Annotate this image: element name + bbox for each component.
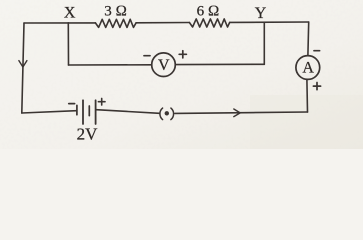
wire: left side (top-left corner down to bottom-left corner) — [22, 23, 24, 113]
svg-text:3 Ω: 3 Ω — [104, 4, 127, 20]
wire: bottom rail middle segment (battery to key) — [96, 110, 159, 114]
svg-text:V: V — [158, 57, 170, 74]
key / connection point: centre dot — [165, 111, 169, 115]
svg-text:X: X — [64, 5, 76, 22]
wire: voltmeter rail right (voltmeter to Y branch) — [175, 63, 264, 65]
voltmeter V1 circle — [152, 53, 176, 77]
battery BT1: long plate (cell 1 positive) — [82, 100, 84, 124]
battery BT1: short plate (cell 2 negative) — [88, 106, 90, 116]
wire: top rail left segment (top-left corner to R1) — [24, 22, 95, 24]
wire: branch from node Y down to voltmeter rail — [263, 22, 265, 64]
current direction arrow on left wire (pointing down) — [19, 61, 27, 67]
battery BT1: negative short plate (left) — [76, 105, 78, 114]
voltmeter polarity minus sign — [144, 55, 150, 57]
wire: bottom rail left segment (bottom-left corner to battery) — [22, 111, 77, 113]
ammeter polarity plus sign — [313, 83, 320, 90]
wire: voltmeter rail left (X branch to voltmeter) — [69, 64, 152, 66]
battery polarity plus sign — [98, 98, 105, 105]
resistor R2 (6 ohm) zigzag — [189, 19, 229, 27]
paper background — [0, 0, 363, 149]
key / connection point: left parenthesis — [160, 108, 163, 120]
voltmeter polarity plus sign — [179, 51, 186, 58]
resistor R1 (3 ohm) zigzag — [95, 19, 136, 27]
ammeter A1 circle — [296, 56, 320, 80]
key / connection point: right parenthesis — [171, 108, 174, 120]
wire: top rail right segment (R2 to top-right corner) — [230, 21, 309, 23]
svg-text:6 Ω: 6 Ω — [197, 4, 220, 20]
wire: top rail middle segment (R1 to R2) — [136, 22, 189, 24]
svg-text:A: A — [302, 60, 314, 77]
wire: branch from node X down to voltmeter rail — [67, 23, 69, 65]
current direction arrow on bottom wire (pointing right) — [234, 109, 240, 117]
wire: right side upper (top-right corner down to ammeter) — [307, 22, 310, 55]
battery BT1: long plate (right, positive terminal) — [95, 100, 97, 124]
wire: right side lower (ammeter to bottom-right corner) — [306, 80, 309, 112]
wire: bottom rail right segment (key to bottom-right corner) — [175, 112, 308, 113]
ammeter polarity minus sign — [314, 50, 320, 52]
battery polarity minus sign — [69, 103, 75, 105]
svg-text:2V: 2V — [77, 125, 99, 144]
svg-text:Y: Y — [255, 5, 267, 22]
